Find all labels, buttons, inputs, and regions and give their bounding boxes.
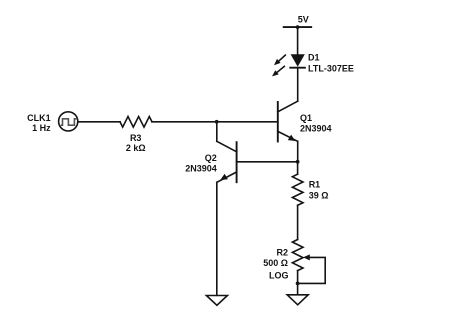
wire R3 to node A — [152, 121, 217, 123]
svg-text:LTL-307EE: LTL-307EE — [308, 64, 354, 74]
svg-text:39 Ω: 39 Ω — [309, 190, 329, 200]
svg-text:1 Hz: 1 Hz — [32, 123, 51, 133]
svg-text:500 Ω: 500 Ω — [263, 258, 288, 268]
wire node B to R1 — [297, 162, 299, 174]
clock source CLK1 circle — [59, 112, 78, 131]
LED D1 cathode bar — [290, 67, 305, 69]
svg-text:Q1: Q1 — [300, 113, 312, 123]
transistor Q1 emitter diagonal — [278, 131, 298, 141]
transistor Q2 emitter diagonal — [217, 172, 237, 182]
wire node C to ground — [297, 283, 299, 294]
5V power rail bar — [284, 26, 312, 28]
resistor R1 — [292, 174, 303, 205]
svg-text:Q2: Q2 — [205, 153, 217, 163]
transistor Q1 collector diagonal — [278, 101, 298, 112]
wire Q1 collector to LED cathode — [297, 68, 299, 102]
wire Q1 emitter to node B — [297, 141, 299, 162]
wire R2 bottom to node C — [297, 271, 299, 284]
potentiometer R2 wiper arrow — [303, 254, 310, 260]
wire node A to Q1 base — [217, 121, 278, 123]
svg-text:R2: R2 — [276, 248, 288, 258]
ground under Q2 — [206, 296, 227, 306]
svg-text:LOG: LOG — [269, 271, 289, 281]
ground under R2 — [287, 295, 308, 305]
transistor Q1 base bar — [277, 102, 279, 142]
svg-text:2 kΩ: 2 kΩ — [126, 143, 146, 153]
wire clock to R3 — [79, 121, 120, 123]
resistor R3 — [120, 117, 152, 128]
LED D1 light arrow lower — [277, 66, 284, 72]
transistor Q2 base bar — [236, 142, 238, 182]
node C junction — [296, 282, 300, 286]
transistor Q2 collector diagonal — [217, 141, 237, 152]
wiper feedback wire — [298, 257, 326, 283]
clock source CLK1 square-wave glyph — [61, 119, 78, 125]
wire Q2 collector to node A — [216, 122, 218, 142]
potentiometer R2 body — [292, 240, 303, 271]
svg-text:R1: R1 — [309, 180, 321, 190]
svg-text:D1: D1 — [308, 53, 320, 63]
LED D1 triangle — [291, 54, 305, 67]
transistor Q1 emitter arrow — [288, 135, 296, 141]
svg-text:2N3904: 2N3904 — [185, 163, 217, 173]
node B junction — [296, 160, 300, 164]
node A junction — [215, 120, 219, 124]
svg-text:2N3904: 2N3904 — [300, 124, 332, 134]
transistor Q2 emitter arrow — [220, 174, 228, 180]
svg-text:CLK1: CLK1 — [27, 113, 51, 123]
5V junction dot — [296, 25, 300, 29]
wire R1 to R2 — [297, 205, 299, 239]
LED D1 light arrow upper — [278, 55, 286, 62]
LED D1 anode wire to 5V — [297, 27, 299, 54]
svg-text:5V: 5V — [298, 15, 309, 25]
wire node B to Q2 base — [237, 161, 298, 163]
wire Q2 emitter to ground — [216, 182, 218, 295]
svg-text:R3: R3 — [130, 133, 142, 143]
